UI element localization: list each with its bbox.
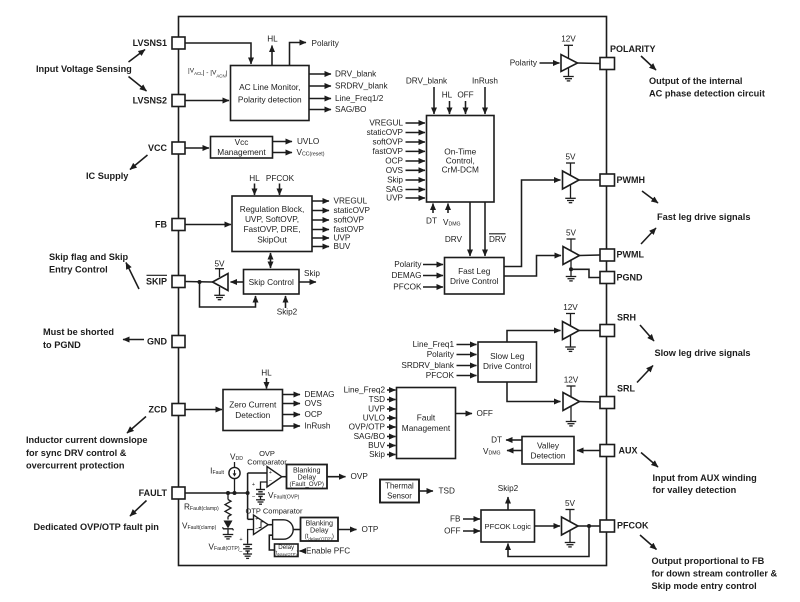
svg-text:Detection: Detection (530, 451, 565, 461)
annotation arrow from VCC (130, 155, 148, 170)
wire Polarity to polarity buffer (540, 62, 560, 64)
svg-text:Fault: Fault (417, 413, 436, 423)
annotation arrow from FAULT (130, 501, 147, 517)
pin PGND (600, 272, 615, 284)
pin SRH (600, 325, 615, 337)
svg-text:HL: HL (442, 91, 453, 100)
wire PFCOK buffer output to PFCOK pin (578, 525, 600, 527)
junction FAULT net at resistor (226, 491, 230, 495)
pin SKIP (172, 276, 185, 288)
svg-text:CrM-DCM: CrM-DCM (442, 165, 479, 175)
label OVP Comparator (247, 449, 287, 467)
svg-text:Management: Management (402, 423, 451, 433)
label InRush (305, 422, 331, 431)
label pin ZCD (149, 405, 168, 415)
svg-text:LVSNS1: LVSNS1 (133, 38, 167, 48)
svg-text:AC Line Monitor,: AC Line Monitor, (239, 82, 300, 92)
op-amp OVP comparator (267, 467, 282, 488)
wire AND gate to Blanking Delay OTP (293, 529, 300, 531)
svg-text:DRV: DRV (489, 235, 507, 244)
svg-text:SRDRV_blank: SRDRV_blank (401, 361, 455, 370)
wire UVLO output (273, 141, 293, 143)
block Zero Current Detection (223, 390, 283, 431)
svg-text:DT: DT (426, 217, 437, 226)
svg-text:DRV_blank: DRV_blank (406, 77, 448, 86)
supply 12V polarity buffer (561, 35, 576, 60)
buffer PWMH driver (563, 171, 580, 189)
block AC Line Monitor (231, 66, 310, 121)
wire OFF input to PFCOK Logic (463, 530, 480, 532)
annotation Slow leg drive signals (655, 348, 751, 358)
svg-text:5V: 5V (565, 499, 576, 508)
svg-text:to PGND: to PGND (43, 340, 81, 350)
wire Skip input to On-Time Control (406, 179, 426, 181)
annotation arrow from POLARITY (641, 56, 656, 70)
label SRDRV_blank (401, 361, 455, 370)
wire FB input to PFCOK Logic (463, 518, 480, 520)
label pin FAULT (139, 488, 168, 498)
label DEMAG (391, 271, 421, 280)
svg-text:SKIP: SKIP (146, 277, 167, 287)
svg-text:SAG/BO: SAG/BO (354, 432, 385, 441)
label VFault(OTP) (209, 543, 240, 553)
svg-text:Input Voltage Sensing: Input Voltage Sensing (36, 64, 132, 74)
wire staticOVP input to On-Time Control (406, 132, 426, 134)
svg-text:Slow Leg: Slow Leg (490, 351, 525, 361)
svg-text:GND: GND (147, 337, 168, 347)
svg-text:Enable PFC: Enable PFC (306, 547, 350, 556)
wire OFF output of Fault Management (456, 413, 473, 415)
wire SRDRV_blank input to Slow Leg Drive Control (457, 365, 477, 367)
svg-text:Delay: Delay (310, 526, 329, 535)
label VFault(OVP) (268, 491, 300, 501)
wire PFCOK Logic to PFCOK buffer (535, 525, 561, 527)
svg-text:LVSNS2: LVSNS2 (133, 96, 167, 106)
svg-text:BUV: BUV (334, 242, 351, 251)
block Fast Leg Drive Control (445, 258, 505, 295)
label UVP (368, 405, 385, 414)
wire Fast Leg Drive Control to PWMH buffer (504, 180, 561, 267)
label IFault (210, 467, 224, 477)
label Skip2 (498, 484, 519, 493)
svg-text:VCC: VCC (148, 143, 168, 153)
pin ZCD (172, 404, 185, 416)
wire InRush output of Zero Current Detection (283, 425, 301, 427)
junction FAULT net at comparator branch (246, 491, 250, 495)
svg-text:−: − (269, 479, 272, 485)
wire OTP output (338, 529, 357, 531)
svg-text:UVP: UVP (386, 194, 403, 203)
svg-text:UVLO: UVLO (363, 414, 385, 423)
wire PWMH buffer output to PWMH pin (579, 179, 600, 181)
block Fault Management (397, 388, 456, 459)
svg-text:Skip: Skip (369, 450, 385, 459)
wire OVP output (327, 476, 346, 478)
wire HL output of AC Line Monitor (271, 46, 273, 66)
svg-text:5V: 5V (566, 229, 577, 238)
svg-text:HL: HL (261, 369, 272, 378)
label DT (491, 436, 502, 445)
svg-text:Skip: Skip (387, 176, 403, 185)
buffer polarity driver (561, 55, 578, 72)
label pin SRL (617, 384, 636, 394)
svg-text:OFF: OFF (477, 409, 493, 418)
svg-text:UVP: UVP (368, 405, 385, 414)
label SRDRV_blank (335, 82, 389, 91)
label Polarity (394, 260, 422, 269)
ground SKIP buffer (214, 287, 225, 300)
svg-text:OVP: OVP (351, 472, 369, 481)
svg-text:DRV_blank: DRV_blank (335, 70, 377, 79)
svg-text:12V: 12V (563, 303, 578, 312)
label RFault(clamp) (184, 503, 219, 513)
label PFCOK (393, 283, 422, 292)
svg-text:DT: DT (491, 436, 502, 445)
svg-text:PFCOK: PFCOK (266, 174, 295, 183)
block Slow Leg Drive Control (478, 342, 537, 382)
label staticOVP (367, 128, 404, 137)
annotation arrow from SRH (640, 325, 654, 341)
wire VFault(OVP) to OVP comparator minus input (261, 482, 267, 489)
wire OVP comparator to Blanking Delay (282, 476, 286, 478)
resistor RFault(clamp) (225, 493, 231, 520)
svg-text:DEMAG: DEMAG (305, 390, 335, 399)
svg-text:Zero Current: Zero Current (229, 400, 277, 410)
wire VDMG input to On-Time Control (447, 204, 449, 214)
svg-text:fastOVP: fastOVP (373, 147, 404, 156)
svg-text:Regulation Block,: Regulation Block, (240, 204, 305, 214)
svg-text:OFF: OFF (444, 527, 460, 536)
label pin SKIP (active low) (146, 275, 167, 286)
wire SAG input to On-Time Control (406, 189, 426, 191)
wire SRH buffer output to SRH pin (579, 330, 600, 332)
svg-text:−: − (255, 527, 258, 533)
svg-text:12V: 12V (564, 376, 579, 385)
annotation arrow from SRL (637, 366, 653, 383)
svg-text:Polarity: Polarity (312, 39, 340, 48)
svg-text:BUV: BUV (368, 441, 385, 450)
wire Skip input to Fault Management (387, 454, 396, 456)
wire SKIP feedback into Skip Control (200, 282, 256, 307)
pin VCC (172, 142, 185, 154)
svg-text:softOVP: softOVP (334, 216, 365, 225)
wire Skip2 input to Skip Control (285, 296, 287, 308)
current source IFault (229, 467, 240, 493)
supply 12V SRH buffer (563, 303, 578, 327)
annotation Output of the internal AC phase detection circuit (649, 76, 765, 99)
label SAG (386, 185, 403, 194)
supply 5V PWMH buffer (565, 153, 576, 177)
annotation Fast leg drive signals (657, 212, 750, 222)
svg-text:HL: HL (249, 174, 260, 183)
wire Slow Leg Drive Control to SRL buffer (507, 382, 561, 402)
pin PWML (600, 249, 615, 261)
svg-text:Dedicated OVP/OTP fault pin: Dedicated OVP/OTP fault pin (34, 522, 160, 532)
svg-text:Polarity: Polarity (427, 350, 455, 359)
label Skip2 (277, 308, 298, 317)
label TSD (369, 395, 385, 404)
svg-text:SAG/BO: SAG/BO (335, 105, 366, 114)
wire Skip Control to skip buffer (231, 281, 244, 283)
wire Polarity output of AC Line Monitor (290, 43, 307, 66)
wire fastOVP input to On-Time Control (406, 150, 426, 152)
svg-text:Skip2: Skip2 (498, 484, 519, 493)
wire UVLO input to Fault Management (387, 417, 396, 419)
label UVP (334, 234, 351, 243)
wire OCP input to On-Time Control (406, 160, 426, 162)
label DRV_blank (406, 77, 448, 86)
label OFF (477, 409, 493, 418)
annotation IC Supply (86, 171, 129, 181)
label pin SRH (617, 313, 636, 323)
annotation Input from AUX winding for valley detection (653, 473, 757, 495)
svg-text:staticOVP: staticOVP (367, 128, 404, 137)
buffer PFCOK driver (562, 517, 579, 535)
annotation Dedicated OVP/OTP fault pin (34, 522, 160, 532)
wire DRV from On-Time Control to Fast Leg Drive Control (469, 202, 471, 256)
wire Fast Leg Drive Control to PWML buffer (504, 256, 561, 277)
svg-text:Fast Leg: Fast Leg (458, 266, 491, 276)
label pin FB (155, 220, 167, 230)
wire PFCOK input to Regulation Block (279, 184, 281, 196)
label OVS (305, 399, 323, 408)
label OTP Comparator (246, 507, 303, 516)
annotation Output proportional to FB / down stream controller / Skip mode entry control (652, 556, 778, 591)
label OFF (444, 527, 460, 536)
svg-text:TSD: TSD (369, 395, 385, 404)
label BUV (368, 441, 385, 450)
svg-text:5V: 5V (214, 260, 225, 269)
IC chip outline (179, 17, 607, 566)
wire SRDRV_blank output of AC Line Monitor (309, 85, 331, 87)
svg-text:Detection: Detection (235, 410, 270, 420)
wire Delay to AND gate lower input (269, 535, 274, 550)
wire VFault(OTP) to OTP comparator minus input (248, 530, 253, 544)
svg-text:+: + (252, 482, 255, 488)
svg-text:Line_Freq1/2: Line_Freq1/2 (335, 94, 384, 103)
wire DRV_blank output of AC Line Monitor (309, 73, 331, 75)
ground below VFault(OTP) (243, 554, 252, 558)
wire DRV_blank input to On-Time Control (433, 87, 435, 114)
label softOVP (334, 216, 365, 225)
label pin PWML (617, 250, 645, 260)
svg-text:PWML: PWML (617, 250, 645, 260)
formula |Vacl|-|Vacn| (188, 68, 228, 78)
wire FB pin to Regulation Block (185, 224, 231, 226)
svg-text:Skip2: Skip2 (277, 308, 298, 317)
label pin GND (147, 337, 168, 347)
svg-text:Comparator: Comparator (247, 458, 287, 467)
label pin PWMH (617, 175, 646, 185)
annotation arrow from AUX (641, 453, 658, 468)
label InRush (472, 77, 498, 86)
pin GND (172, 336, 185, 348)
label OCP (385, 157, 403, 166)
svg-text:Thermal: Thermal (385, 482, 414, 491)
label VDMG (443, 218, 461, 228)
svg-text:Fast leg drive signals: Fast leg drive signals (657, 212, 750, 222)
svg-text:FAULT: FAULT (139, 488, 168, 498)
ground PFCOK buffer (565, 530, 576, 547)
junction PFCOK output net (587, 524, 591, 528)
wire Polarity input to Slow Leg Drive Control (457, 354, 477, 356)
label SAG/BO (335, 105, 366, 114)
label FB (450, 515, 461, 524)
svg-text:Output of the internal: Output of the internal (649, 76, 742, 86)
svg-text:OVP/OTP: OVP/OTP (349, 423, 386, 432)
wire Enable PFC input to Delay (300, 550, 306, 552)
wire TSD output of Thermal Sensor (419, 490, 433, 492)
svg-text:SRH: SRH (617, 313, 636, 323)
block Vcc Management (211, 137, 273, 159)
ground below VFault(OVP) (256, 500, 265, 504)
supply 12V SRL buffer (564, 376, 579, 398)
svg-text:(Fault_OVP): (Fault_OVP) (290, 481, 324, 488)
label VFault(clamp) (182, 522, 217, 532)
wire UVP input to On-Time Control (406, 197, 426, 199)
zener diode VFault(clamp) (223, 521, 234, 535)
label pin LVSNS1 (133, 38, 167, 48)
pin FAULT (172, 487, 185, 499)
junction FAULT net at current source (233, 491, 237, 495)
svg-text:PFCOK: PFCOK (393, 283, 422, 292)
svg-text:staticOVP: staticOVP (334, 206, 371, 215)
wire TSD input to Fault Management (387, 399, 396, 401)
annotation arrow from PWMH (642, 191, 658, 203)
svg-text:ZCD: ZCD (149, 405, 168, 415)
wire skip buffer output to SKIP pin (185, 281, 213, 284)
wire VCC(reset) output (273, 152, 293, 154)
svg-text:TSD: TSD (439, 487, 455, 496)
wire softOVP input to On-Time Control (406, 141, 426, 143)
label Polarity (312, 39, 340, 48)
supply 5V PWML buffer (566, 229, 577, 252)
svg-text:Skip: Skip (304, 269, 320, 278)
svg-text:SRDRV_blank: SRDRV_blank (335, 82, 389, 91)
wire DRVbar from On-Time Control to Fast Leg Drive Control (484, 202, 486, 256)
svg-text:Input from AUX winding: Input from AUX winding (653, 473, 757, 483)
wire BUV output of Regulation Block (312, 246, 329, 248)
block Blanking Delay OTP (301, 518, 339, 542)
block Regulation Block (232, 196, 312, 252)
svg-text:+: + (269, 470, 272, 476)
label VCC(reset) (297, 148, 325, 158)
label softOVP (373, 138, 404, 147)
wire PWML buffer ground to PGND pin (571, 269, 600, 277)
svg-text:SRL: SRL (617, 384, 636, 394)
wire AUX pin to Valley Detection (577, 450, 600, 452)
label Line_Freq1 (413, 340, 455, 349)
wire Line_Freq2 input to Fault Management (387, 389, 396, 391)
label fastOVP (373, 147, 404, 156)
svg-text:5V: 5V (565, 153, 576, 162)
wire SAG/BO output of AC Line Monitor (309, 109, 331, 111)
wire VREGUL input to On-Time Control (406, 122, 426, 124)
wire UVP input to Fault Management (387, 408, 396, 410)
ground below zener (223, 535, 234, 539)
buffer PWML driver (563, 247, 580, 265)
label DRV_blank (335, 70, 377, 79)
label PFCOK (266, 174, 295, 183)
wire SAG/BO input to Fault Management (387, 436, 396, 438)
label fastOVP (334, 225, 365, 234)
svg-text:overcurrent protection: overcurrent protection (26, 461, 125, 471)
wire Slow Leg Drive Control to SRH buffer (507, 331, 561, 343)
block Delay tdelay(OTP) (274, 544, 298, 557)
svg-text:InRush: InRush (305, 422, 331, 431)
buffer SRL driver (563, 393, 580, 411)
wire VCC pin to Vcc Management (185, 147, 209, 149)
wire InRush input to On-Time Control (484, 87, 486, 114)
svg-text:Polarity detection: Polarity detection (238, 95, 302, 105)
wire BUV input to Fault Management (387, 445, 396, 447)
annotation arrow to LVSNS1 (129, 50, 146, 63)
label pin POLARITY (610, 44, 656, 54)
block On-Time Control (427, 116, 495, 203)
svg-text:Skip mode entry control: Skip mode entry control (652, 581, 757, 591)
label OFF (457, 91, 473, 100)
svg-text:Valley: Valley (537, 441, 560, 451)
pin PFCOK (600, 520, 615, 532)
svg-text:Line_Freq2: Line_Freq2 (344, 386, 386, 395)
svg-text:OVS: OVS (305, 399, 323, 408)
svg-text:OTP Comparator: OTP Comparator (246, 507, 303, 516)
label DRVbar (489, 234, 507, 244)
annotation Inductor current downslope (26, 435, 147, 471)
wire Line_Freq1/2 output of AC Line Monitor (309, 98, 331, 100)
wire DEMAG output of Zero Current Detection (283, 394, 301, 396)
label Skip (369, 450, 385, 459)
label pin VCC (148, 143, 168, 153)
annotation arrow from SKIP (126, 263, 139, 290)
svg-text:Delay: Delay (278, 544, 295, 551)
label TSD (439, 487, 455, 496)
pin LVSNS2 (172, 95, 185, 107)
annotation arrow from GND (123, 339, 144, 341)
svg-text:Polarity: Polarity (394, 260, 422, 269)
wire polarity buffer output to POLARITY pin (578, 62, 601, 65)
svg-text:−: − (252, 495, 256, 501)
svg-text:UVP, SoftOVP,: UVP, SoftOVP, (245, 214, 299, 224)
pin PWMH (600, 174, 615, 186)
label pin PGND (617, 273, 644, 283)
svg-text:FB: FB (155, 220, 167, 230)
label PFCOK (426, 371, 455, 380)
label Enable PFC (306, 547, 350, 556)
wire HL input to Zero Current Detection (266, 378, 268, 389)
wire PWML buffer output to PWML pin (580, 254, 601, 257)
svg-text:SkipOut: SkipOut (257, 235, 287, 245)
net comparator input branch (lower) (247, 493, 249, 519)
svg-text:Skip flag and Skip: Skip flag and Skip (49, 252, 129, 262)
annotation Skip flag and Skip Entry Control (49, 252, 129, 275)
svg-text:12V: 12V (561, 35, 576, 44)
buffer SRH driver (563, 322, 580, 340)
label Skip (387, 176, 403, 185)
annotation arrow from PWML (641, 228, 656, 244)
svg-text:VREGUL: VREGUL (369, 119, 403, 128)
label UVLO (297, 137, 319, 146)
wire PFCOK feedback into PFCOK Logic (508, 526, 589, 557)
label VDMG (483, 447, 501, 457)
block PFCOK Logic (481, 510, 535, 542)
svg-text:Skip Control: Skip Control (249, 277, 294, 287)
svg-text:Polarity: Polarity (510, 59, 538, 68)
net comparator input branch (upper) (247, 473, 249, 493)
label OVP/OTP (349, 423, 386, 432)
annotation arrow from PFCOK (640, 535, 657, 550)
junction PWML ground net (569, 267, 573, 271)
